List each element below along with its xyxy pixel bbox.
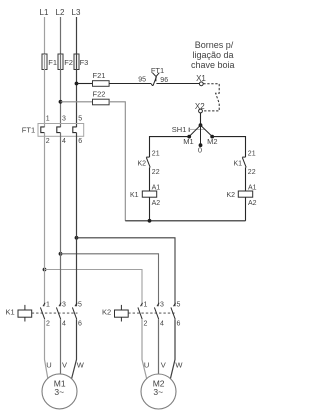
svg-text:L2: L2: [56, 8, 65, 17]
wire K1 pole1 to motor M1 U: [45, 319, 48, 378]
wire L2 to K2 pin3: [61, 254, 159, 306]
svg-text:0: 0: [198, 145, 202, 154]
node tap L3 to K2: [75, 236, 79, 240]
svg-text:F2: F2: [64, 58, 73, 67]
svg-text:FT1: FT1: [22, 125, 35, 134]
svg-text:A2: A2: [152, 200, 161, 207]
svg-text:U: U: [46, 361, 51, 370]
svg-text:1: 1: [144, 301, 148, 308]
node bus junction: [148, 219, 152, 223]
svg-text:6: 6: [177, 320, 181, 327]
svg-text:L3: L3: [72, 8, 81, 17]
svg-text:A1: A1: [152, 184, 161, 191]
node SH1 M2: [210, 135, 214, 139]
svg-text:96: 96: [160, 77, 168, 84]
svg-text:4: 4: [160, 320, 164, 327]
motor M1: [42, 374, 77, 409]
wire 22 to K1 coil: [149, 167, 151, 191]
wire K1 coil to bus: [149, 197, 151, 221]
svg-text:V: V: [161, 361, 166, 370]
wire K2 pole1 to motor M2 U: [142, 319, 147, 378]
fuse F22: [93, 99, 110, 105]
svg-text:F3: F3: [80, 58, 89, 67]
svg-text:Bornes p/: Bornes p/: [195, 40, 234, 50]
node tap L3 to F21: [75, 82, 79, 86]
wire L3 FT1 to K1: [76, 133, 78, 307]
wire SH1 arm to M1: [189, 125, 200, 136]
svg-text:W: W: [77, 361, 85, 370]
wire F22 branch: [61, 101, 93, 103]
wire L1 top: [44, 17, 46, 54]
wire K2 mechanical link dashed: [128, 312, 176, 314]
svg-text:A2: A2: [248, 200, 257, 207]
motor M2: [141, 374, 176, 409]
svg-text:3: 3: [160, 301, 164, 308]
svg-text:95: 95: [138, 77, 146, 84]
wire SH1 arm to 0: [200, 125, 202, 145]
wire K1 pole3 to motor M1 W: [72, 319, 77, 378]
wire dashed X1 to X2: [203, 84, 220, 111]
wire M1 contact to left rail: [150, 137, 190, 158]
wire K2 pole2 to motor M2 V: [158, 319, 160, 374]
svg-text:22: 22: [248, 169, 256, 176]
svg-text:1: 1: [46, 115, 50, 122]
wire L3 fuse to FT1: [76, 54, 78, 127]
svg-text:3: 3: [62, 301, 66, 308]
svg-text:6: 6: [78, 138, 82, 145]
wire L3 top: [76, 17, 78, 54]
svg-text:K1: K1: [233, 161, 242, 168]
heater FT1 pole2: [57, 127, 61, 133]
wire K2 pole3 to motor M2 W: [170, 319, 175, 379]
svg-text:6: 6: [78, 320, 82, 327]
svg-text:K2: K2: [226, 192, 235, 199]
svg-text:A1: A1: [248, 184, 257, 191]
node SH1 0: [199, 143, 203, 147]
wire L2 FT1 to K1: [60, 133, 62, 307]
svg-text:F1: F1: [48, 58, 57, 67]
svg-text:2: 2: [46, 320, 50, 327]
svg-text:K2: K2: [102, 307, 111, 316]
wire A2 bus: [125, 220, 245, 222]
wire F21 to FT1 aux contact: [109, 83, 151, 85]
node tap L2 to F22: [59, 100, 63, 104]
svg-text:ligação da: ligação da: [192, 50, 233, 60]
wire K2 coil to bus: [245, 197, 247, 221]
wire L1 fuse to FT1: [44, 54, 46, 127]
svg-text:M1: M1: [183, 137, 193, 146]
svg-text:SH1: SH1: [172, 125, 187, 134]
svg-text:3: 3: [62, 115, 66, 122]
wire L2 fuse to FT1: [60, 54, 62, 127]
svg-text:21: 21: [248, 150, 256, 157]
svg-text:3~: 3~: [153, 387, 163, 397]
wire 22 to K2 coil: [245, 167, 247, 191]
svg-text:22: 22: [152, 169, 160, 176]
svg-text:W: W: [175, 361, 183, 370]
wire 96 to X1: [156, 83, 199, 85]
svg-text:5: 5: [78, 115, 82, 122]
node tap L1 to K2: [43, 268, 47, 272]
svg-text:V: V: [62, 361, 67, 370]
node SH1 common junction: [199, 123, 203, 127]
fuse F3: [74, 54, 79, 70]
wire L3 to K2 pin5: [77, 238, 176, 306]
svg-text:U: U: [144, 361, 149, 370]
wire X2 to SH1 common: [200, 113, 202, 125]
svg-text:M2: M2: [207, 137, 217, 146]
svg-text:5: 5: [177, 301, 181, 308]
wire F22 to control return: [109, 102, 125, 221]
svg-text:1: 1: [46, 301, 50, 308]
svg-text:4: 4: [62, 320, 66, 327]
svg-text:3~: 3~: [54, 387, 64, 397]
svg-text:F22: F22: [93, 89, 106, 98]
wire K1 mechanical link dashed: [32, 312, 78, 314]
wire SH1 arm to M2: [201, 125, 213, 136]
wire M2 contact to right rail: [212, 137, 245, 158]
svg-text:K2: K2: [137, 161, 146, 168]
fuse F1: [42, 54, 47, 70]
svg-text:2: 2: [144, 320, 148, 327]
svg-text:F21: F21: [93, 71, 106, 80]
node SH1 M1: [187, 135, 191, 139]
svg-text:L1: L1: [40, 8, 49, 17]
wire L1 to K2 pin1: [45, 270, 143, 307]
node tap L2 to K2: [59, 252, 63, 256]
wire L1 FT1 to K1: [44, 133, 46, 307]
svg-text:2: 2: [46, 138, 50, 145]
svg-text:4: 4: [62, 138, 66, 145]
heater FT1 pole1: [41, 127, 45, 133]
fuse F21: [93, 81, 110, 87]
svg-text:5: 5: [78, 301, 82, 308]
heater FT1 pole3: [73, 127, 77, 133]
svg-text:21: 21: [152, 150, 160, 157]
svg-text:chave boia: chave boia: [191, 60, 235, 70]
svg-text:K1: K1: [6, 307, 15, 316]
wire F21 branch: [77, 83, 93, 85]
wire L2 top: [60, 17, 62, 54]
svg-text:K1: K1: [130, 192, 139, 199]
fuse F2: [58, 54, 63, 70]
wire K1 pole2 to motor M1 V: [60, 319, 62, 374]
